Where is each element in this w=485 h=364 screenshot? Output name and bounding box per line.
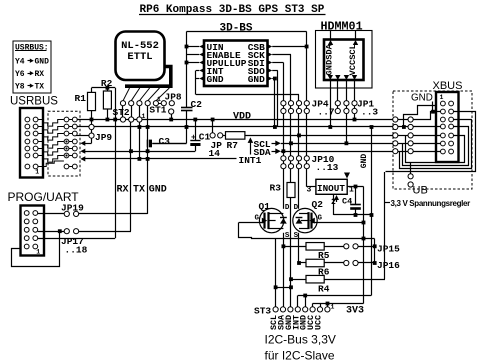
svg-text:3: 3 (306, 186, 311, 195)
svg-text:..13: ..13 (316, 162, 339, 173)
svg-text:..7: ..7 (318, 107, 335, 118)
svg-text:Y8: Y8 (15, 83, 25, 92)
svg-text:RX: RX (35, 70, 45, 79)
svg-text:für I2C-Slave: für I2C-Slave (265, 349, 335, 363)
svg-text:TX: TX (35, 83, 45, 92)
svg-text:1: 1 (36, 248, 40, 255)
svg-text:USRBUS:: USRBUS: (15, 44, 49, 53)
svg-text:G: G (317, 215, 322, 223)
svg-text:1: 1 (35, 169, 39, 176)
svg-text:JP15: JP15 (377, 243, 400, 254)
svg-text:C1: C1 (199, 131, 211, 142)
svg-text:3V3: 3V3 (346, 306, 364, 317)
svg-text:..3: ..3 (361, 107, 378, 118)
svg-text:TX: TX (133, 185, 145, 196)
svg-text:D: D (285, 204, 290, 212)
svg-text:R1: R1 (75, 93, 87, 104)
svg-text:Y4: Y4 (15, 58, 25, 67)
svg-text:INT1: INT1 (239, 155, 262, 166)
svg-text:GNDSDA: GNDSDA (324, 43, 334, 75)
svg-text:I2C-Bus 3,3V: I2C-Bus 3,3V (265, 333, 336, 347)
svg-text:1: 1 (331, 303, 335, 310)
svg-text:UCC: UCC (314, 315, 324, 330)
svg-text:3,3 V Spannungsregler: 3,3 V Spannungsregler (391, 199, 471, 208)
svg-text:HDMM01: HDMM01 (321, 19, 363, 33)
svg-text:USRBUS: USRBUS (10, 96, 58, 108)
svg-text:ST2: ST2 (113, 107, 130, 118)
svg-text:Y6: Y6 (15, 70, 25, 79)
svg-text:G: G (255, 215, 260, 223)
svg-text:1: 1 (440, 94, 444, 101)
svg-text:ST3: ST3 (254, 305, 271, 316)
svg-text:3D-BS: 3D-BS (220, 23, 253, 35)
svg-text:GND: GND (411, 93, 433, 104)
svg-text:R4: R4 (318, 283, 330, 294)
svg-text:JP19: JP19 (61, 203, 84, 214)
svg-text:VCCSCL: VCCSCL (348, 44, 358, 75)
svg-text:INOUT: INOUT (317, 183, 345, 194)
svg-text:GND: GND (207, 74, 224, 85)
svg-text:Q2: Q2 (312, 199, 324, 210)
svg-text:R3: R3 (270, 183, 282, 194)
svg-text:RX: RX (117, 185, 129, 196)
svg-text:GND: GND (35, 58, 50, 67)
svg-text:JP16: JP16 (377, 260, 400, 271)
svg-text:GND: GND (360, 154, 369, 169)
svg-text:ETTL: ETTL (127, 51, 152, 63)
svg-text:14: 14 (209, 148, 221, 159)
svg-text:JP9: JP9 (95, 132, 112, 143)
svg-text:VDD: VDD (233, 111, 251, 122)
svg-text:Q1: Q1 (259, 201, 271, 212)
svg-text:GND: GND (248, 74, 265, 85)
svg-text:XBUS: XBUS (433, 80, 463, 92)
svg-text:R7: R7 (227, 140, 239, 151)
svg-text:GND: GND (149, 185, 167, 196)
svg-text:C3: C3 (159, 136, 171, 147)
svg-text:UB: UB (413, 185, 428, 197)
svg-text:..18: ..18 (65, 244, 88, 255)
